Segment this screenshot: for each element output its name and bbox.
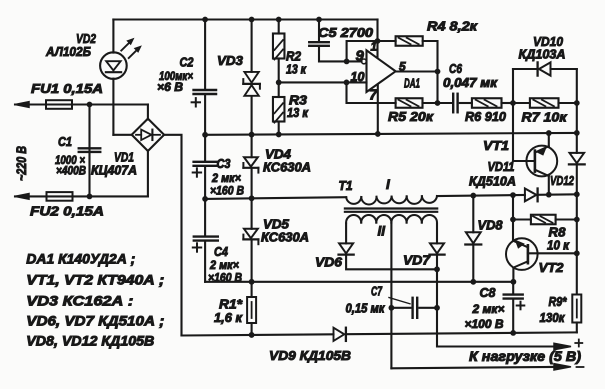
svg-text:FU2 0,15А: FU2 0,15А: [30, 204, 104, 219]
label C8 value1: [471, 302, 504, 316]
wire VD6-VD7 cathode: [346, 255, 437, 269]
wire plus rail: [205, 133, 577, 135]
label C1 value2: [56, 164, 86, 178]
label R5: [388, 109, 435, 124]
wire mid rail far right: [537, 193, 576, 196]
wire pin10: [279, 81, 367, 83]
junction node at (252,20): [249, 17, 255, 23]
svg-text:R9*: R9*: [549, 294, 568, 309]
wire VT2 base: [528, 252, 577, 254]
node C1 bottom: [87, 194, 93, 200]
mains arrow upper: [15, 102, 29, 108]
label VD8: [478, 218, 504, 233]
wire VD12 to mid rail: [576, 167, 578, 195]
wire right column upper: [576, 69, 578, 153]
junction node at (252,135): [249, 132, 255, 138]
resistor R4: [396, 36, 423, 46]
junction node at (577,220): [574, 217, 580, 223]
wire C5 top: [318, 20, 320, 41]
transistor VT1: [526, 146, 557, 177]
capacitor C3: [194, 162, 217, 166]
svg-text:C6: C6: [449, 61, 463, 76]
svg-text:КЦ407А: КЦ407А: [91, 164, 137, 178]
wire VD2 to bridge left vertex: [113, 134, 131, 136]
wire VD6 column: [345, 224, 347, 244]
wire VD7 column: [436, 224, 438, 270]
label VD1: [114, 150, 134, 165]
label C3 value1: [211, 171, 241, 185]
wire opamp output: [396, 70, 438, 72]
arrow output minus: [554, 364, 571, 370]
diode VD8: [465, 232, 481, 244]
wire VD10 left: [513, 68, 538, 70]
transformer T1 primary winding I: [346, 196, 437, 205]
junction node at (205,20): [202, 17, 208, 23]
label C7: [371, 285, 383, 299]
diode VD10: [538, 62, 551, 75]
svg-text:VD8, VD12 КД105В: VD8, VD12 КД105В: [26, 333, 154, 348]
pin 10: [351, 70, 365, 84]
junction node at (473,282): [470, 279, 476, 285]
junction node at (205,199): [202, 196, 208, 202]
svg-text:II: II: [378, 224, 386, 239]
label R1 value: [214, 311, 243, 325]
label R8: [549, 225, 567, 240]
svg-text:9: 9: [356, 48, 365, 65]
op-amp DA1: [362, 50, 396, 92]
label R7: [522, 110, 569, 125]
plus C3: [193, 168, 201, 176]
junction node at (279,20): [276, 17, 282, 23]
wire C column: [204, 20, 206, 282]
svg-text:VD8: VD8: [478, 218, 504, 233]
label VD4 type: [263, 161, 311, 175]
svg-text:×160 В: ×160 В: [210, 184, 244, 198]
svg-text:×6 В: ×6 В: [157, 80, 183, 94]
wire R2-R3 mid: [278, 59, 280, 98]
label R2 value: [286, 63, 307, 77]
wire output minus: [391, 223, 554, 369]
svg-text:VD3: VD3: [217, 53, 244, 68]
resistor R7: [530, 98, 559, 108]
junction node at (252,335): [249, 332, 255, 338]
wire R6R7 to VT1 base: [513, 69, 535, 161]
svg-text:C8: C8: [480, 285, 497, 300]
output minus sign: [577, 366, 584, 368]
zener VD5: [243, 229, 258, 244]
svg-text:~220 В: ~220 В: [13, 146, 29, 181]
svg-text:0,047 мк: 0,047 мк: [443, 76, 498, 90]
label R9: [549, 294, 568, 309]
label VD7: [403, 253, 431, 268]
wire R8 right: [556, 218, 577, 220]
wire C7 right: [419, 307, 437, 309]
svg-text:C4: C4: [214, 244, 229, 259]
wire C5 bottom corner: [319, 48, 362, 62]
capacitor C5: [309, 42, 329, 46]
label C3 value2: [210, 184, 244, 198]
svg-text:VT1: VT1: [483, 138, 509, 153]
label VD5: [263, 217, 290, 232]
junction node at (513,195): [510, 192, 516, 198]
wire R4 to output column: [423, 41, 438, 103]
wire R9 bottom: [576, 323, 578, 333]
diode VD7: [429, 243, 444, 254]
parts list line 1: [26, 252, 135, 267]
svg-text:I: I: [386, 177, 390, 192]
parts list line 4: [26, 314, 164, 329]
wire VD10 right: [551, 68, 577, 70]
svg-text:VD6: VD6: [315, 255, 343, 270]
label C1 value1: [55, 153, 85, 167]
svg-text:10: 10: [351, 70, 365, 84]
label R8 value: [547, 239, 570, 253]
label VD11 type: [469, 175, 516, 189]
label mains voltage: [13, 146, 29, 181]
wire bottom bus right: [346, 332, 576, 334]
svg-text:1,6 к: 1,6 к: [214, 311, 243, 325]
transformer T1 secondary winding II: [346, 215, 437, 223]
resistor R1: [247, 297, 256, 323]
svg-text:VT2: VT2: [539, 260, 565, 275]
plus C2: [192, 98, 200, 106]
svg-text:VD9 КД105В: VD9 КД105В: [269, 348, 351, 363]
wire right column lower: [576, 194, 578, 294]
svg-text:C1: C1: [58, 134, 72, 149]
junction node at (252,198): [249, 195, 255, 201]
junction node at (391,308): [389, 305, 395, 311]
wire C8 column: [512, 282, 514, 333]
wire VD3 column: [251, 20, 253, 298]
svg-text:КС630А: КС630А: [261, 231, 309, 245]
label R3 value: [287, 106, 309, 120]
svg-text:C7: C7: [371, 285, 383, 299]
junction node at (378,41): [375, 38, 381, 44]
wire R6 to junction: [502, 102, 514, 104]
resistor R3: [273, 97, 285, 123]
label R2: [286, 49, 302, 64]
junction node at (252,282): [249, 279, 255, 285]
label R3: [289, 93, 308, 108]
label winding I: [386, 177, 390, 192]
label winding II: [378, 224, 386, 239]
label VD3: [217, 53, 244, 68]
svg-text:13 к: 13 к: [287, 106, 309, 120]
svg-text:×400В: ×400В: [56, 164, 86, 178]
diode VD9: [334, 328, 346, 341]
capacitor C8: [504, 295, 523, 299]
label VD6: [315, 255, 343, 270]
svg-text:КД510А: КД510А: [469, 175, 516, 189]
capacitor C4: [194, 237, 218, 241]
wire bottom bus left: [182, 334, 334, 335]
svg-text:2 мк×: 2 мк×: [471, 302, 504, 316]
svg-text:C2: C2: [180, 55, 195, 70]
capacitor C1: [79, 148, 101, 152]
label C2 value2: [157, 80, 183, 94]
resistor R2: [273, 34, 285, 60]
pin 9: [356, 48, 365, 65]
label VD11: [488, 159, 515, 174]
capacitor C2: [194, 90, 217, 94]
label C8: [480, 285, 497, 300]
svg-text:VD5: VD5: [263, 217, 290, 232]
capacitor C6: [453, 94, 457, 113]
wire mains lower: [15, 195, 148, 197]
junction node at (513,103): [510, 100, 516, 106]
wire VD2 column upper: [112, 20, 114, 53]
svg-text:R8: R8: [549, 225, 567, 240]
junction node at (577,194): [574, 191, 580, 197]
label R6: [465, 109, 507, 124]
wire mid rail left: [205, 197, 346, 199]
wire VD2 column lower: [112, 79, 114, 135]
junction node at (279,134): [276, 132, 282, 138]
label R1: [219, 297, 243, 312]
svg-text:13 к: 13 к: [286, 63, 307, 77]
wire R5 tee: [347, 82, 396, 103]
junction node at (513,220): [510, 217, 516, 223]
label VD5 type: [261, 231, 309, 245]
zener VD3: [243, 72, 260, 96]
wire VT1 emitter: [548, 176, 550, 195]
svg-text:R2: R2: [286, 49, 302, 64]
C7 leader line: [389, 298, 410, 304]
wire pin1: [376, 20, 378, 58]
svg-text:КС630А: КС630А: [263, 161, 311, 175]
wire top rail: [113, 18, 377, 20]
parts list line 5: [26, 333, 154, 348]
label C3: [217, 156, 232, 171]
junction node at (279,82): [276, 80, 282, 86]
label DA1: [404, 76, 420, 91]
wire bridge to left drop: [164, 135, 181, 336]
label VD12: [550, 173, 575, 188]
wire R5 right: [423, 102, 438, 104]
junction node at (577,103): [574, 100, 580, 106]
junction node at (513,282): [511, 279, 517, 285]
svg-text:C3: C3: [217, 156, 232, 171]
junction node at (549,133): [546, 130, 552, 136]
svg-text:R6 910: R6 910: [465, 109, 507, 124]
junction node at (549,195): [546, 192, 552, 198]
label C8 value2: [465, 317, 504, 331]
label C2: [180, 55, 195, 70]
resistor R9: [572, 295, 581, 323]
plus C4: [193, 243, 201, 251]
junction node at (437,269): [434, 266, 440, 272]
fuse FU1: [46, 100, 72, 109]
wire VT2 emitter drop: [512, 268, 514, 282]
svg-text:VD11: VD11: [488, 159, 515, 174]
label FU2: [30, 204, 104, 219]
resistor R5: [396, 98, 423, 108]
svg-text:130к: 130к: [540, 311, 566, 325]
transistor VT2: [506, 238, 538, 270]
svg-text:К нагрузке (5 В): К нагрузке (5 В): [469, 349, 582, 364]
junction node at (473,196): [470, 193, 476, 199]
node C1 top: [87, 102, 93, 108]
svg-text:VD12: VD12: [550, 173, 575, 188]
wire lower rail: [205, 281, 513, 283]
label VD2: [76, 31, 97, 46]
junction node at (577,133): [574, 130, 580, 136]
label VD9: [269, 348, 351, 363]
label VT1: [483, 138, 509, 153]
label VD4: [265, 147, 292, 162]
label R9 value: [540, 311, 566, 325]
label C7 value: [346, 302, 386, 316]
zener VD4: [243, 157, 258, 172]
label VT2: [539, 260, 565, 275]
wire VT1 collector: [548, 133, 550, 146]
junction node at (378,134): [375, 131, 381, 137]
diode VD12: [569, 153, 585, 165]
svg-text:T1: T1: [339, 178, 353, 193]
label T1: [339, 178, 353, 193]
fuse FU2: [47, 192, 73, 201]
svg-text:VT1, VT2 КТ940А ;: VT1, VT2 КТ940А ;: [26, 272, 164, 287]
svg-text:VD1: VD1: [114, 150, 134, 165]
svg-text:DA1 К140УД2А ;: DA1 К140УД2А ;: [26, 252, 135, 267]
output plus sign: [575, 340, 582, 347]
wire mid rail right: [437, 195, 525, 196]
parts list line 3: [26, 294, 133, 309]
wire pin7: [377, 85, 379, 134]
label C4 value1: [209, 258, 239, 272]
label VD2 type: [45, 44, 91, 59]
wire R7 left: [513, 102, 530, 104]
junction node at (438,103): [435, 100, 441, 106]
label VD10 type: [519, 48, 566, 62]
svg-text:5: 5: [399, 60, 406, 74]
label R4: [427, 19, 479, 34]
arrow output plus: [554, 343, 571, 349]
svg-text:VD6, VD7 КД510А ;: VD6, VD7 КД510А ;: [26, 314, 164, 329]
svg-text:VD4: VD4: [265, 147, 292, 162]
wire R1 bottom: [251, 323, 253, 335]
svg-text:R4 8,2к: R4 8,2к: [427, 19, 479, 34]
diode VD6: [339, 243, 354, 254]
svg-text:VD3 КС162А :: VD3 КС162А :: [26, 294, 133, 309]
wire R8 left: [513, 195, 531, 241]
resistor R8: [531, 215, 556, 225]
resistor R6: [472, 98, 502, 108]
svg-text:10 к: 10 к: [547, 239, 570, 253]
junction node at (513,333): [510, 330, 516, 336]
junction node at (438,72): [435, 69, 441, 75]
label C6: [449, 61, 463, 76]
label C5: [318, 25, 374, 40]
wire output plus: [437, 269, 555, 346]
capacitor C7: [413, 298, 418, 318]
wire FU1 to bridge top: [147, 105, 149, 120]
pin 7: [369, 87, 378, 104]
svg-text:R7 10к: R7 10к: [522, 110, 569, 125]
wire C6 to R6: [460, 102, 472, 104]
label VD10: [533, 34, 564, 49]
label C6 value: [443, 76, 498, 90]
transformer T1 core: [345, 209, 437, 212]
svg-text:КД103А: КД103А: [519, 48, 566, 62]
plus C8: [517, 302, 525, 310]
svg-text:FU1 0,15А: FU1 0,15А: [31, 81, 103, 96]
mains arrow lower: [15, 194, 29, 200]
junction node at (437,308): [434, 305, 440, 311]
rectifier bridge VD1: [132, 119, 164, 151]
wire C1 column: [88, 105, 90, 197]
wire C6 left: [438, 102, 452, 104]
label C4 value2: [208, 271, 242, 285]
svg-text:7: 7: [369, 87, 378, 104]
junction node at (347,61): [344, 59, 350, 65]
label C2 value1: [159, 69, 193, 83]
parts list line 2: [26, 272, 164, 287]
wire C7 left: [391, 307, 410, 309]
pin 5: [399, 60, 406, 74]
junction node at (205,135): [202, 132, 208, 138]
pin 1: [371, 42, 377, 54]
label C1: [58, 134, 72, 149]
wire R3 bottom: [278, 122, 280, 135]
junction node at (346,82): [344, 80, 350, 86]
LED VD2: [100, 39, 141, 79]
svg-text:АЛ102Б: АЛ102Б: [45, 44, 91, 59]
wire FU2 to bridge bottom: [147, 151, 149, 197]
svg-text:DA1: DA1: [404, 76, 420, 91]
svg-text:VD7: VD7: [403, 253, 431, 268]
junction node at (319,20): [316, 17, 322, 23]
svg-text:R5 20к: R5 20к: [388, 109, 435, 124]
svg-text:×160 В: ×160 В: [208, 271, 242, 285]
wire VD8 column: [472, 196, 474, 282]
label C4: [214, 244, 229, 259]
wire pin9 feedback tee: [347, 41, 396, 61]
svg-text:C5 2700: C5 2700: [318, 25, 374, 40]
label output: [469, 349, 582, 364]
label VD1 type: [91, 164, 137, 178]
wire R7 right: [559, 102, 577, 104]
diode VD11: [525, 189, 538, 202]
wire mains upper: [15, 103, 148, 105]
wire R2 top: [278, 20, 280, 34]
junction node at (577,253): [574, 250, 580, 256]
svg-text:0,15 мк: 0,15 мк: [346, 302, 386, 316]
label FU1: [31, 81, 103, 96]
svg-text:×100 В: ×100 В: [465, 317, 504, 331]
svg-text:1: 1: [371, 42, 377, 54]
svg-text:R1*: R1*: [219, 297, 243, 312]
